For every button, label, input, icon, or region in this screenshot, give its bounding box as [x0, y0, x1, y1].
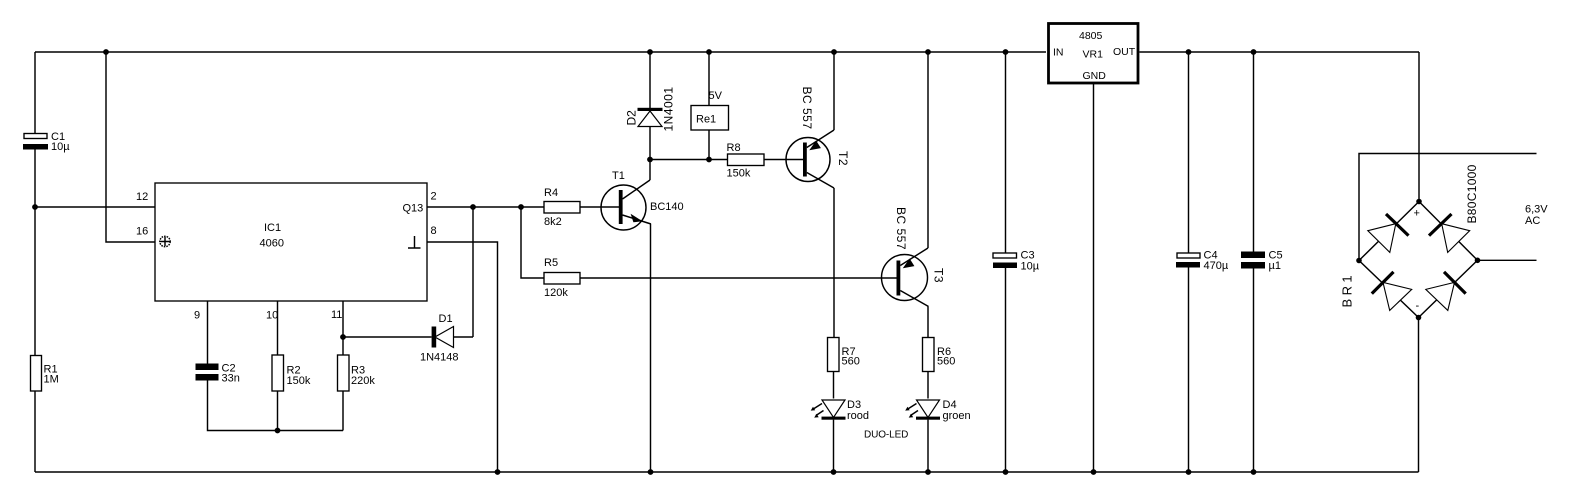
node top rail T2 emitter	[831, 49, 837, 55]
transistor T2 BC557	[786, 87, 850, 189]
wire relay node rail	[650, 159, 728, 161]
svg-text:8k2: 8k2	[544, 216, 562, 228]
svg-text:µ1: µ1	[1269, 260, 1281, 272]
wire Q13 output	[427, 206, 544, 208]
svg-text:1N4148: 1N4148	[420, 352, 459, 364]
node Re1 R8 rail	[706, 157, 712, 163]
node bridge right	[1475, 258, 1481, 264]
voltage regulator VR1 4805	[1049, 24, 1139, 84]
svg-text:4805: 4805	[1079, 30, 1103, 42]
svg-text:AC: AC	[1525, 215, 1540, 227]
wire pin 8 to bottom rail	[427, 242, 498, 472]
node top rail C4	[1186, 49, 1192, 55]
node VR1 GND bottom rail	[1091, 469, 1097, 475]
svg-text:9: 9	[194, 310, 200, 322]
wire pin 9	[207, 301, 209, 364]
capacitor C5	[1241, 250, 1283, 272]
svg-text:GND: GND	[1083, 70, 1107, 82]
wire R3 bottom to join	[342, 391, 344, 431]
wire AC top terminal	[1359, 154, 1537, 261]
wire D4 to bottom rail	[927, 420, 929, 472]
diode D1 1N4148	[343, 313, 473, 364]
svg-text:150k: 150k	[287, 375, 311, 387]
node D2 bottom / relay rail	[647, 157, 653, 163]
wire R8 to T2 base	[764, 159, 803, 161]
resistor R6	[923, 338, 956, 372]
wire pin 12	[35, 206, 155, 208]
wire pin 10	[277, 301, 279, 355]
wire bridge - node to bottom rail	[1418, 318, 1420, 473]
transistor T3 BC557	[882, 207, 946, 307]
node Q13/D1 branch	[470, 204, 476, 210]
wire left rail C1 to pin12 node	[34, 150, 36, 208]
wire T2 emitter up	[833, 52, 835, 130]
resistor R3	[338, 355, 376, 391]
svg-text:DUO-LED: DUO-LED	[864, 430, 908, 441]
wire T1 collector up to relay node	[649, 160, 651, 181]
wire C4 top lead	[1188, 52, 1190, 253]
svg-text:560: 560	[937, 356, 955, 368]
wire R2 bottom to join	[277, 391, 279, 431]
resistor R8	[727, 142, 765, 180]
svg-text:D1: D1	[439, 313, 453, 325]
svg-text:-: -	[1416, 300, 1420, 312]
node bridge minus	[1416, 315, 1422, 321]
wire VR1 GND down to bottom rail	[1093, 83, 1095, 472]
wire from top rail down to bridge + node	[1418, 52, 1420, 202]
node top rail to pin16 branch	[103, 49, 109, 55]
svg-text:T1: T1	[612, 170, 625, 182]
wire C5 bottom lead	[1253, 269, 1255, 473]
svg-text:OUT: OUT	[1113, 46, 1136, 58]
node pin11 D1	[340, 334, 346, 340]
wire R7 to D3	[833, 372, 835, 399]
svg-text:+: +	[1414, 208, 1420, 220]
svg-text:2: 2	[431, 191, 437, 203]
wire bottom rail	[35, 471, 1419, 473]
transistor T1 BC140	[601, 170, 684, 230]
svg-text:T2: T2	[836, 151, 850, 166]
wire down to R5	[521, 207, 544, 278]
capacitor C3	[993, 250, 1040, 273]
svg-text:R4: R4	[544, 187, 558, 199]
bridge diode upper-right	[1429, 214, 1470, 252]
svg-text:R8: R8	[727, 142, 741, 154]
node D3 bottom rail	[831, 469, 837, 475]
node bridge plus	[1416, 199, 1422, 205]
node C5 bottom rail	[1251, 469, 1257, 475]
wire C3 top lead	[1005, 52, 1007, 253]
svg-text:BR1: BR1	[1340, 272, 1355, 308]
wire T3 emitter up	[927, 52, 929, 248]
svg-text:B80C1000: B80C1000	[1465, 164, 1479, 223]
wire C4 bottom lead	[1188, 268, 1190, 473]
svg-text:BC 557: BC 557	[800, 87, 814, 130]
wire left rail upper (C1 top lead)	[34, 52, 36, 134]
wire pin16 branch	[106, 52, 155, 242]
diode D2 1N4001	[625, 52, 676, 160]
svg-text:16: 16	[136, 226, 148, 238]
bridge BR1 diamond wires	[1359, 202, 1478, 318]
node C4 bottom rail	[1186, 469, 1192, 475]
svg-text:33n: 33n	[222, 373, 240, 385]
bridge diode upper-left	[1368, 214, 1409, 252]
svg-text:10µ: 10µ	[1021, 261, 1040, 273]
svg-text:470µ: 470µ	[1204, 260, 1229, 272]
svg-text:12: 12	[136, 191, 148, 203]
node C1/R1/pin12	[32, 204, 38, 210]
bridge diode lower-right	[1426, 272, 1466, 311]
wire C2 bottom to RC join	[208, 381, 344, 431]
svg-text:11: 11	[331, 309, 342, 321]
svg-text:150k: 150k	[727, 168, 751, 180]
node Q13/R5 branch	[518, 204, 524, 210]
svg-text:6,3V: 6,3V	[1525, 204, 1548, 216]
wire Re1 top lead	[708, 52, 710, 106]
svg-text:D2: D2	[625, 110, 639, 126]
capacitor C2	[196, 363, 240, 385]
LED D4 groen	[905, 399, 970, 422]
resistor R5	[544, 257, 580, 299]
svg-text:10: 10	[266, 310, 278, 322]
svg-text:VR1: VR1	[1083, 49, 1104, 61]
node C3 bottom rail	[1003, 469, 1009, 475]
svg-text:8: 8	[431, 225, 437, 237]
wire C3 bottom lead	[1005, 268, 1007, 472]
power symbol plus inside IC pin16	[160, 236, 170, 246]
svg-text:BC140: BC140	[650, 201, 684, 213]
svg-text:560: 560	[842, 356, 860, 368]
svg-text:rood: rood	[847, 410, 869, 422]
svg-text:groen: groen	[943, 410, 971, 422]
wire T2 collector down to R7	[833, 188, 835, 338]
svg-text:Re1: Re1	[696, 114, 716, 126]
wire R6 to D4	[927, 372, 929, 399]
node bridge left	[1356, 258, 1362, 264]
ground symbol inside IC pin8	[408, 236, 421, 248]
node D4 bottom rail	[925, 469, 931, 475]
svg-text:R5: R5	[544, 257, 558, 269]
wire T3 collector down to R6	[927, 307, 929, 338]
wire R5 rail to T3 base	[580, 277, 897, 279]
node top rail T3 emitter	[925, 49, 931, 55]
IC U1 4060 box	[136, 183, 437, 322]
wire top rail right of VR1	[1140, 51, 1420, 53]
resistor R7	[828, 338, 860, 372]
node pin8 bottom rail	[495, 469, 501, 475]
wire R4 to T1 base	[580, 206, 619, 208]
svg-text:120k: 120k	[544, 287, 568, 299]
wire T1 emitter down to bottom rail	[650, 224, 652, 472]
relay Re1	[691, 90, 729, 130]
node top rail D2	[647, 49, 653, 55]
svg-text:1M: 1M	[44, 374, 59, 386]
capacitor C1	[23, 131, 70, 153]
wire D3 to bottom rail	[833, 420, 835, 472]
bridge diode lower-left	[1372, 272, 1412, 311]
wire Q13 down to D1	[472, 207, 474, 337]
wire pin 11	[342, 301, 344, 355]
wire Re1 bottom lead	[708, 130, 710, 160]
svg-text:IN: IN	[1053, 47, 1064, 59]
wire C5 top lead	[1253, 52, 1255, 252]
resistor R4	[544, 187, 580, 228]
svg-text:5V: 5V	[709, 90, 723, 102]
node top rail C3	[1003, 49, 1009, 55]
svg-text:T3: T3	[932, 268, 946, 283]
svg-text:1N4001: 1N4001	[662, 86, 676, 131]
svg-text:BC 557: BC 557	[894, 207, 908, 250]
resistor R2	[272, 355, 311, 391]
wire AC right terminal	[1478, 259, 1537, 261]
wire R1 bottom to bottom rail	[34, 391, 36, 472]
node top rail C5	[1251, 49, 1257, 55]
resistor R1	[31, 356, 59, 392]
svg-text:220k: 220k	[351, 375, 375, 387]
svg-text:10µ: 10µ	[51, 141, 70, 153]
node T1 emitter bottom rail	[648, 469, 654, 475]
node RC join	[275, 428, 281, 434]
svg-text:IC1: IC1	[264, 222, 281, 234]
svg-text:4060: 4060	[260, 238, 284, 250]
LED D3 rood	[811, 399, 869, 422]
node top rail Re1	[706, 49, 712, 55]
svg-text:Q13: Q13	[403, 203, 424, 215]
wire top rail left of VR1	[35, 51, 1046, 53]
wire left rail node to R1	[34, 207, 36, 356]
capacitor C4	[1176, 250, 1229, 272]
